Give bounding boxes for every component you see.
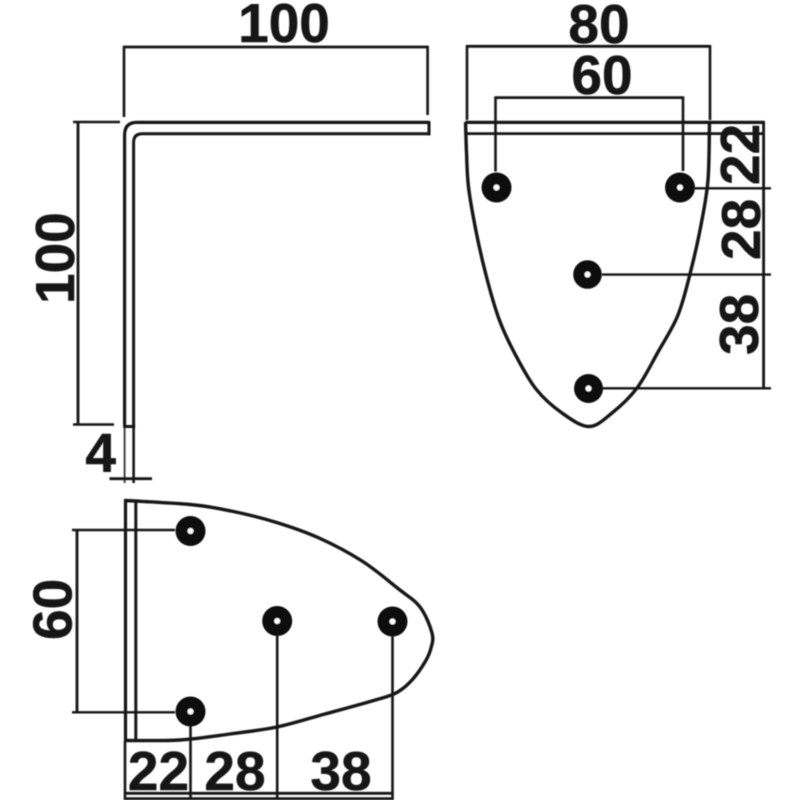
side view: extension line bottom of left 100 dim xyxy=(73,423,114,425)
bottom view: chain extension from right hole xyxy=(391,637,394,800)
side view: extension line right of top 100 dim xyxy=(426,46,429,115)
bottom view: hole middle xyxy=(262,606,292,636)
bottom view: bend tangent line xyxy=(134,501,137,741)
side view: dimension line 100 top xyxy=(124,46,428,49)
side view: L angle bottom end cap xyxy=(123,425,135,428)
side view: L angle inner contour xyxy=(134,134,429,426)
bottom view: chain lower line 2 xyxy=(124,797,394,800)
front view: right chain dimension line xyxy=(762,122,765,388)
front view: hole top-right xyxy=(665,173,695,203)
side view: thickness 4 extension line right xyxy=(132,428,135,483)
svg-text:22: 22 xyxy=(709,124,771,185)
bottom view: dimension 60 line xyxy=(76,530,79,712)
front view: dimension line 80 xyxy=(467,45,710,48)
side view: L angle right end cap xyxy=(428,121,431,135)
svg-text:4: 4 xyxy=(85,422,116,484)
svg-text:28: 28 xyxy=(204,740,265,800)
svg-text:38: 38 xyxy=(708,294,770,355)
front view: extension line right of 60 dim down to hole xyxy=(682,96,685,171)
front view: extension line left of 60 dim down to hole xyxy=(494,96,497,171)
bottom view: hole right xyxy=(378,607,408,637)
front view: plate top edge line xyxy=(465,121,765,124)
side view: L angle outer contour xyxy=(125,122,429,426)
svg-text:60: 60 xyxy=(22,579,84,640)
front view: bend tangent line xyxy=(465,132,765,135)
front view: extension line at top hole level xyxy=(695,187,771,189)
bottom view: chain extension at plate left edge xyxy=(124,742,127,800)
bottom view: extension line top of 60 dim xyxy=(72,529,175,531)
svg-text:22: 22 xyxy=(128,740,189,800)
bottom view: hole bottom-left xyxy=(176,697,206,727)
bottom view: teardrop plate outline xyxy=(126,501,433,741)
front view: extension line at bottom hole level xyxy=(603,387,771,389)
side view: extension line top of left 100 dim xyxy=(73,121,120,123)
front view: extension line at middle hole level xyxy=(602,273,771,275)
front view: extension line left of 80 dim xyxy=(466,45,469,120)
bottom view: extension line bottom of 60 dim xyxy=(72,711,175,713)
bottom view: plate left edge xyxy=(124,499,127,742)
bottom view: chain lower line 1 xyxy=(124,792,394,795)
front view: hole bottom xyxy=(574,374,603,403)
svg-text:38: 38 xyxy=(310,740,371,800)
front view: dimension line 60 xyxy=(496,96,684,99)
bottom view: chain extension from middle hole xyxy=(276,636,279,800)
svg-text:28: 28 xyxy=(710,199,772,260)
bottom view: hole top-left xyxy=(176,516,206,546)
front view: extension line right of 80 dim xyxy=(709,45,712,120)
front view: hole top-left xyxy=(482,173,512,203)
side view: thickness 4 extension line left xyxy=(124,428,126,483)
side view: extension line left of top 100 dim xyxy=(123,46,126,117)
front view: teardrop plate outline xyxy=(466,122,710,427)
side view: thickness 4 dimension line xyxy=(110,477,153,480)
side view: dimension line 100 left xyxy=(77,122,80,425)
bottom view: chain extension from bottom-left hole xyxy=(189,727,192,800)
front view: hole middle xyxy=(573,260,602,289)
